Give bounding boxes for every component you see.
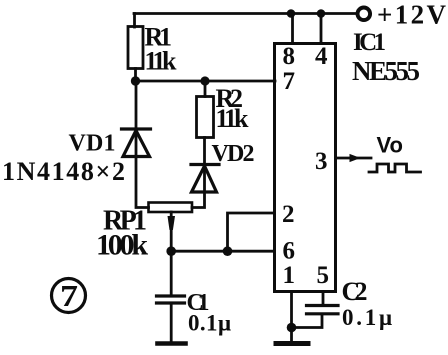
svg-text:1N4148×2: 1N4148×2 <box>2 157 125 186</box>
wire pin5 lead <box>322 292 325 305</box>
svg-text:+12V: +12V <box>377 0 447 30</box>
svg-text:3: 3 <box>315 148 328 175</box>
svg-text:7: 7 <box>60 278 78 313</box>
svg-text:2: 2 <box>282 201 295 228</box>
node junction pin2 bracket <box>223 246 233 256</box>
diode VD2 <box>191 138 219 208</box>
resistor R2 <box>197 97 214 138</box>
svg-text:NE555: NE555 <box>352 56 420 86</box>
IC IC1 NE555 box <box>275 44 336 292</box>
wire pin8 lead <box>291 14 294 44</box>
svg-text:6: 6 <box>283 238 296 265</box>
svg-text:100k: 100k <box>96 229 148 262</box>
svg-text:Vo: Vo <box>377 132 404 157</box>
wire pin4 lead <box>320 14 323 44</box>
potentiometer RP1 <box>149 203 193 213</box>
pin3 arrowhead <box>350 154 361 162</box>
svg-text:4: 4 <box>315 43 328 70</box>
svg-text:11k: 11k <box>216 104 250 133</box>
node junction pin8 rail <box>287 9 296 18</box>
svg-text:5: 5 <box>317 262 330 289</box>
capacitor C2 <box>307 306 339 314</box>
svg-text:0.1μ: 0.1μ <box>342 305 392 330</box>
node +12V terminal <box>358 8 371 21</box>
diode VD1 <box>122 81 151 208</box>
wire pin2 bracket <box>228 213 275 251</box>
svg-text:7: 7 <box>283 68 296 95</box>
node junction pin1/C2 <box>287 323 297 333</box>
wire pin7 horizontal <box>136 80 276 83</box>
svg-text:C2: C2 <box>342 277 368 306</box>
wire C1 bottom lead <box>170 303 173 341</box>
figure number circle 7 <box>52 279 86 313</box>
wire R2 top stub <box>204 81 207 97</box>
wire R1 top lead <box>133 14 136 28</box>
wire C2 bottom to pin1 <box>292 315 323 328</box>
svg-text:0.1μ: 0.1μ <box>188 311 231 336</box>
node junction wiper/C1/pin6 <box>166 246 176 256</box>
node junction pin4 rail <box>317 9 326 18</box>
node junction R1/VD1 <box>131 76 140 85</box>
wire pin6 horizontal <box>171 250 274 253</box>
svg-text:VD2: VD2 <box>212 141 255 167</box>
ground C1 <box>158 341 186 346</box>
wire R1 bottom lead <box>134 69 137 82</box>
svg-text:IC1: IC1 <box>353 29 386 56</box>
capacitor C1 <box>157 296 185 303</box>
wire pin3 output <box>336 157 371 160</box>
wire RP1 wiper <box>170 212 173 251</box>
svg-text:11k: 11k <box>145 46 178 75</box>
square wave symbol <box>369 164 421 172</box>
svg-text:1: 1 <box>283 262 296 289</box>
wire top supply rail <box>134 12 356 15</box>
wire pin1 lead to ground <box>290 292 293 341</box>
RP1 wiper arrowhead <box>168 216 176 230</box>
resistor R1 <box>128 27 143 69</box>
svg-text:VD1: VD1 <box>69 131 116 157</box>
wire C1 top lead <box>170 251 173 296</box>
node junction R2 top <box>200 76 209 85</box>
svg-text:8: 8 <box>283 43 296 70</box>
ground pin1/C2 <box>276 341 308 346</box>
